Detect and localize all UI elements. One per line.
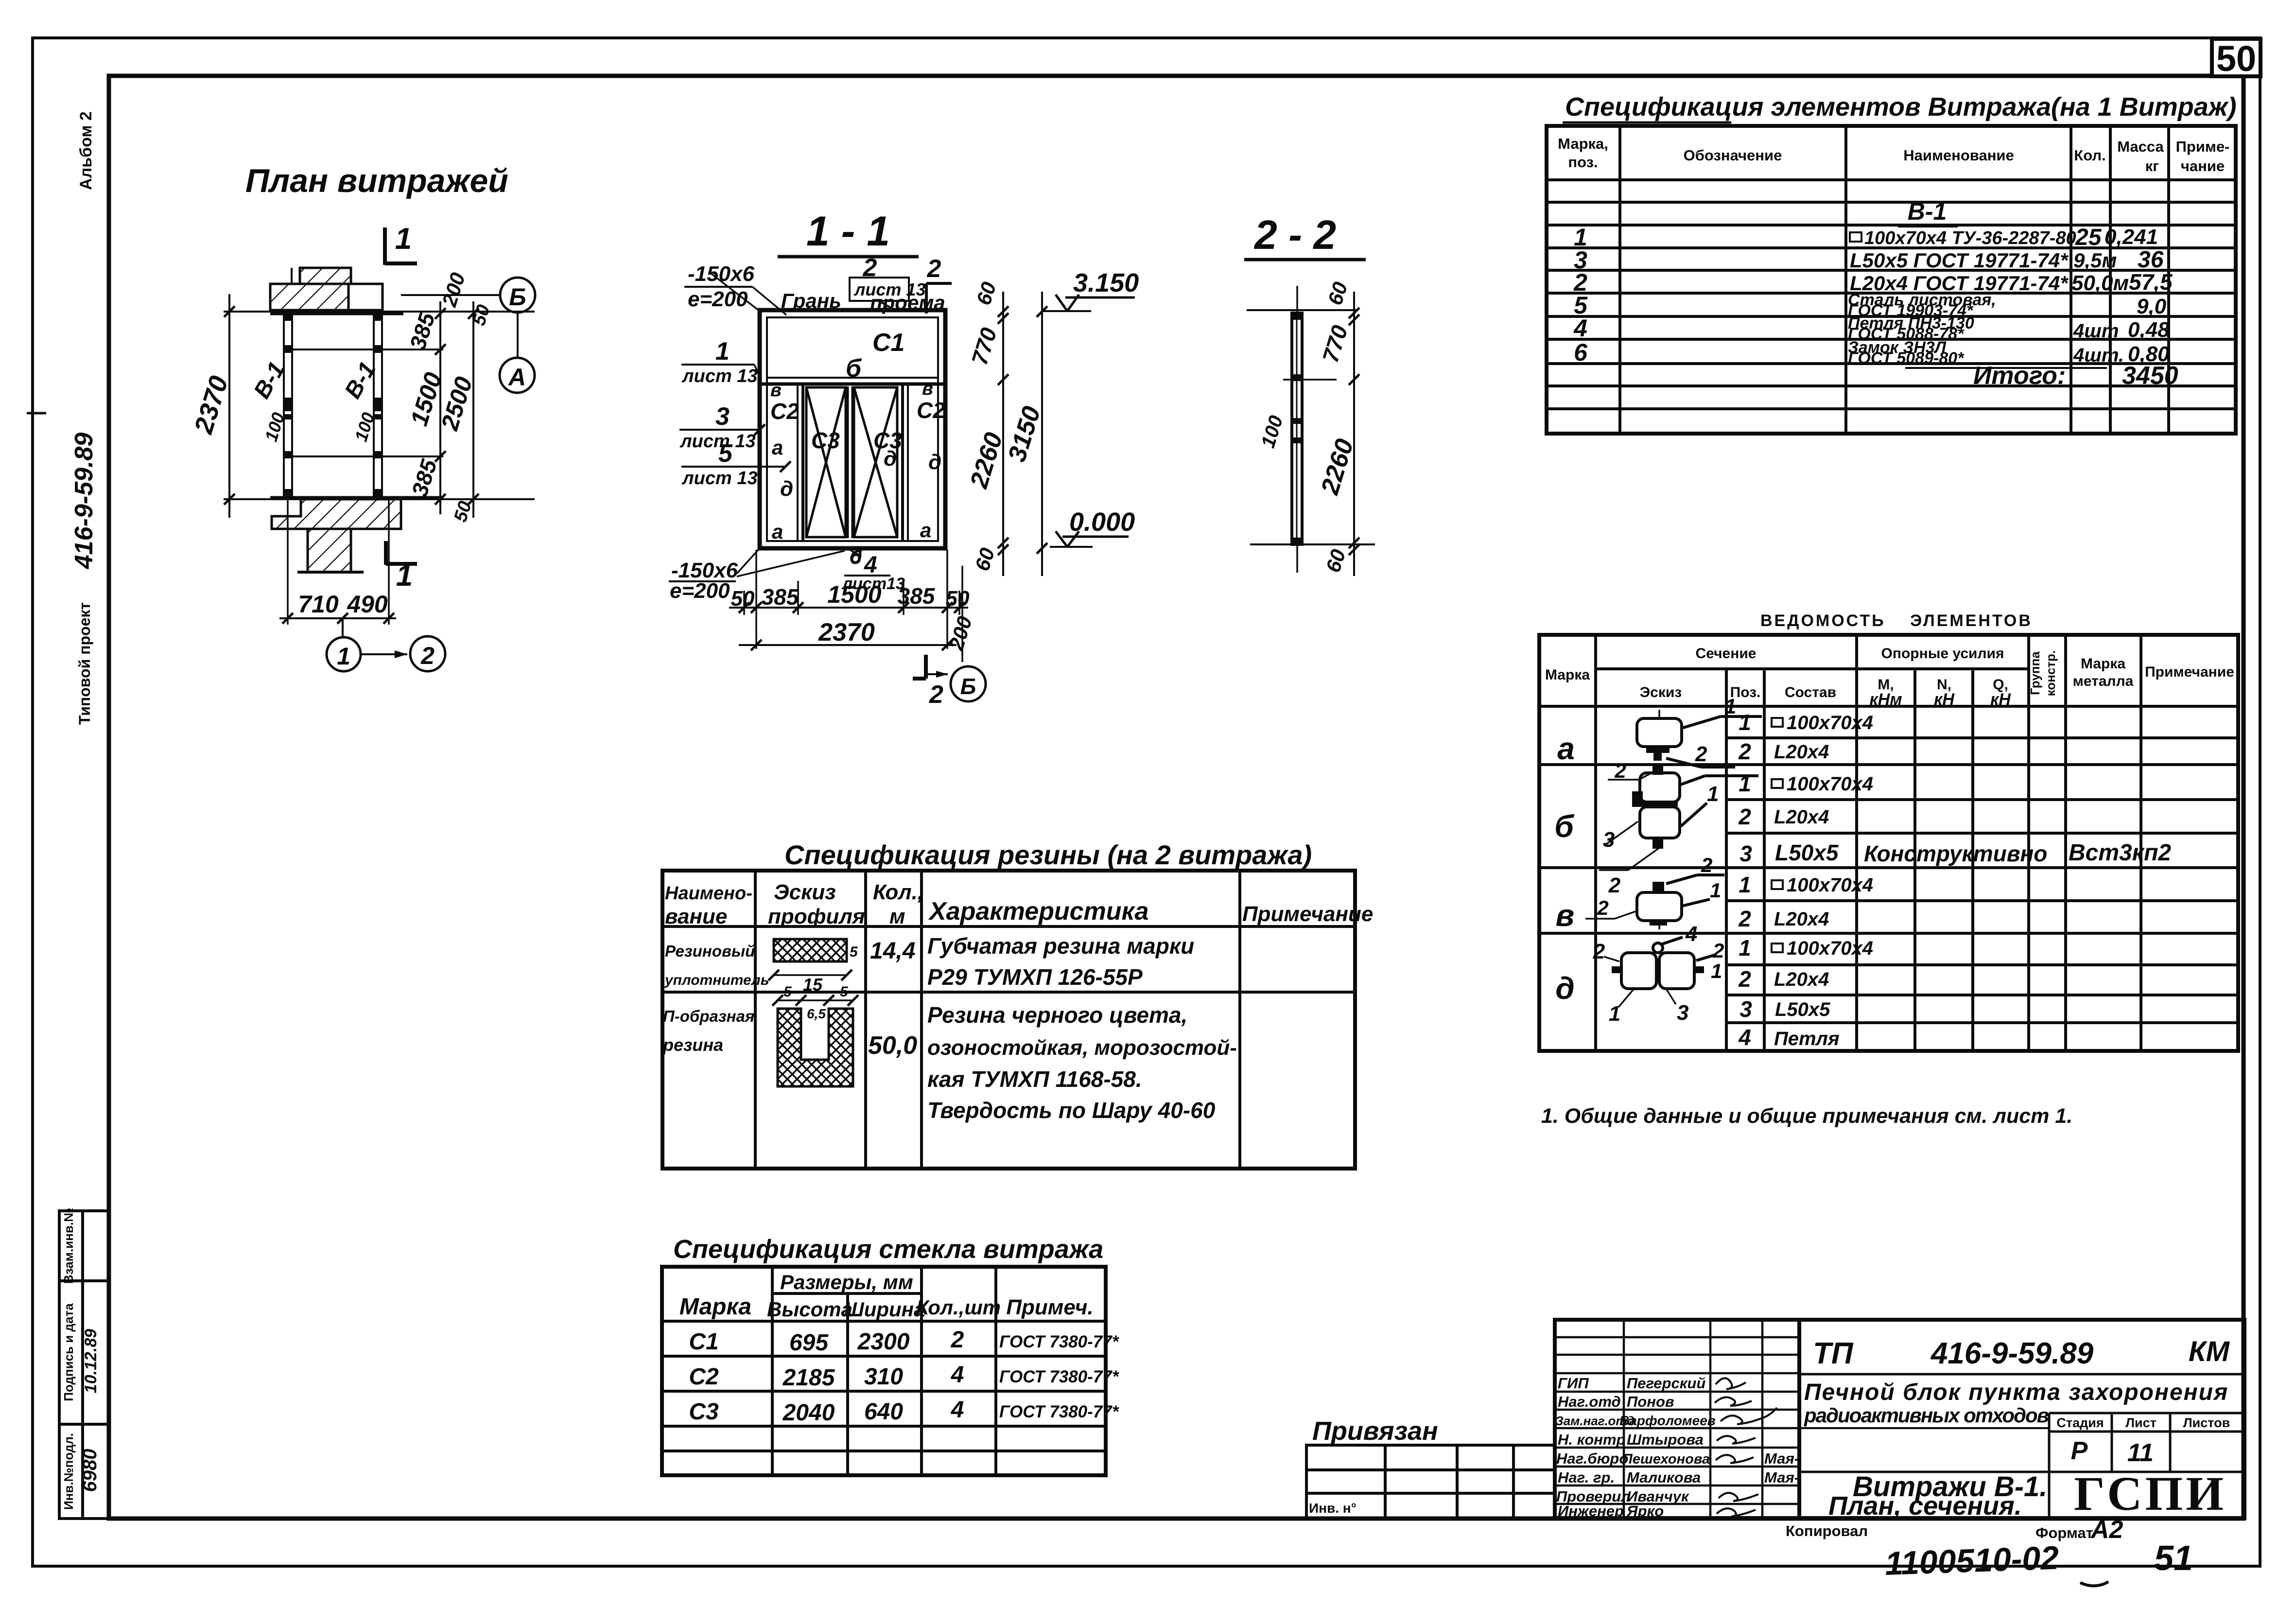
svg-text:вание: вание bbox=[665, 905, 727, 928]
svg-text:2185: 2185 bbox=[783, 1365, 835, 1391]
svg-text:С2: С2 bbox=[770, 399, 799, 424]
svg-text:L50x5: L50x5 bbox=[1775, 999, 1830, 1020]
стадия/лист table bbox=[1799, 1413, 2244, 1518]
svg-text:Стадия: Стадия bbox=[2056, 1415, 2104, 1430]
svg-text:чание: чание bbox=[2181, 157, 2225, 175]
window outer frame bbox=[760, 310, 945, 548]
svg-text:поз.: поз. bbox=[1568, 154, 1598, 171]
svg-text:Варфоломеев: Варфоломеев bbox=[1619, 1413, 1716, 1428]
svg-text:1: 1 bbox=[396, 559, 413, 593]
central mullion bbox=[847, 386, 849, 538]
svg-text:2300: 2300 bbox=[857, 1329, 910, 1355]
svg-text:50,0: 50,0 bbox=[868, 1031, 917, 1060]
svg-text:Резиновый: Резиновый bbox=[665, 942, 755, 960]
svg-text:10.12.89: 10.12.89 bbox=[82, 1329, 100, 1393]
svg-text:2370: 2370 bbox=[818, 618, 875, 646]
svg-text:радиоактивных отходов: радиоактивных отходов bbox=[1804, 1404, 2049, 1427]
signature table bbox=[1555, 1320, 1799, 1518]
svg-text:4: 4 bbox=[951, 1362, 964, 1388]
svg-text:озоностойкая, морозостой-: озоностойкая, морозостой- bbox=[927, 1036, 1237, 1060]
svg-text:Ширина: Ширина bbox=[844, 1298, 925, 1321]
sheet number 50 box bbox=[2212, 39, 2261, 76]
right mullion (В-1) bbox=[374, 314, 382, 497]
left mullion (В-1) bbox=[284, 314, 292, 497]
svg-text:2: 2 bbox=[1608, 873, 1621, 897]
svg-text:1: 1 bbox=[715, 337, 730, 366]
band under C1 bbox=[767, 377, 938, 379]
svg-text:Типовой проект: Типовой проект bbox=[76, 602, 93, 725]
svg-text:Опорные усилия: Опорные усилия bbox=[1881, 646, 2004, 662]
svg-text:640: 640 bbox=[864, 1399, 903, 1425]
svg-text:3: 3 bbox=[1739, 841, 1752, 866]
svg-text:Р: Р bbox=[2071, 1437, 2088, 1465]
svg-text:695: 695 bbox=[789, 1330, 829, 1356]
svg-text:С1: С1 bbox=[872, 329, 904, 357]
svg-text:5: 5 bbox=[840, 984, 849, 1000]
svg-text:1. Общие данные и общие примеч: 1. Общие данные и общие примечания см. л… bbox=[1541, 1104, 2072, 1128]
svg-text:1: 1 bbox=[395, 222, 412, 256]
svg-text:Пегерский: Пегерский bbox=[1627, 1375, 1705, 1392]
svg-text:кН: кН bbox=[1934, 690, 1955, 709]
svg-text:Пешехонова: Пешехонова bbox=[1622, 1451, 1710, 1467]
svg-text:100x70x4: 100x70x4 bbox=[1787, 712, 1873, 734]
svg-text:Б: Б bbox=[509, 283, 526, 311]
svg-text:2: 2 bbox=[863, 254, 877, 282]
svg-text:2: 2 bbox=[951, 1327, 964, 1353]
svg-text:лист 13: лист 13 bbox=[853, 279, 925, 299]
svg-text:L50x5: L50x5 bbox=[1775, 840, 1839, 865]
svg-text:Конструктивно: Конструктивно bbox=[1864, 841, 2047, 866]
svg-text:ГОСТ 5089-80*: ГОСТ 5089-80* bbox=[1848, 349, 1965, 367]
svg-text:в: в bbox=[922, 379, 933, 399]
column (double line) bbox=[1292, 313, 1302, 544]
svg-text:д: д bbox=[928, 450, 941, 474]
svg-text:1100510-02: 1100510-02 bbox=[1884, 1539, 2060, 1582]
right dim line 2 (3150) bbox=[1041, 292, 1043, 576]
svg-text:Привязан: Привязан bbox=[1312, 1416, 1438, 1446]
svg-text:Понов: Понов bbox=[1627, 1393, 1674, 1410]
svg-text:Губчатая резина марки: Губчатая резина марки bbox=[927, 933, 1194, 959]
svg-text:1: 1 bbox=[1710, 879, 1721, 902]
svg-text:100x70x4: 100x70x4 bbox=[1787, 874, 1873, 896]
svg-text:L20x4: L20x4 bbox=[1774, 741, 1829, 763]
svg-text:4: 4 bbox=[1738, 1025, 1751, 1050]
svg-text:резина: резина bbox=[662, 1035, 723, 1055]
svg-text:Листов: Листов bbox=[2183, 1415, 2230, 1430]
svg-text:ГИП: ГИП bbox=[1558, 1375, 1589, 1392]
svg-text:11: 11 bbox=[2127, 1439, 2154, 1467]
svg-text:Кол.,: Кол., bbox=[873, 880, 923, 904]
dim 710 490 bbox=[279, 617, 396, 619]
svg-text:1: 1 bbox=[337, 643, 350, 670]
section flag 1 (bottom) bbox=[386, 541, 417, 565]
bottom flag 2 with circle Б bbox=[924, 655, 928, 679]
svg-text:2: 2 bbox=[1738, 906, 1751, 931]
svg-text:б: б bbox=[846, 354, 862, 383]
svg-text:Кол.,шт: Кол.,шт bbox=[916, 1296, 1001, 1319]
svg-text:План, сечения.: План, сечения. bbox=[1828, 1491, 2022, 1520]
svg-text:Мая-: Мая- bbox=[1764, 1469, 1799, 1486]
svg-text:100x70x4: 100x70x4 bbox=[1787, 938, 1873, 959]
svg-text:а: а bbox=[772, 436, 783, 459]
svg-text:100x70x4 ТУ-36-2287-80: 100x70x4 ТУ-36-2287-80 bbox=[1864, 228, 2076, 248]
svg-text:2: 2 bbox=[1597, 896, 1608, 919]
svg-text:ГСПИ: ГСПИ bbox=[2074, 1467, 2226, 1520]
svg-text:Штырова: Штырова bbox=[1627, 1431, 1704, 1448]
svg-text:416-9-59.89: 416-9-59.89 bbox=[1930, 1337, 2094, 1370]
svg-text:Примечание: Примечание bbox=[1242, 902, 1373, 926]
svg-text:Р29 ТУМХП 126-55Р: Р29 ТУМХП 126-55Р bbox=[927, 964, 1143, 990]
svg-text:Вст3кп2: Вст3кп2 bbox=[2069, 840, 2171, 866]
svg-text:50: 50 bbox=[2216, 38, 2256, 79]
svg-text:2: 2 bbox=[1738, 804, 1751, 829]
svg-text:П-образная: П-образная bbox=[663, 1007, 754, 1025]
svg-text:лист 13: лист 13 bbox=[681, 366, 758, 386]
svg-text:Примеч.: Примеч. bbox=[1006, 1295, 1093, 1319]
fold mark bbox=[27, 412, 46, 415]
svg-text:1 - 1: 1 - 1 bbox=[806, 208, 890, 255]
svg-text:1: 1 bbox=[1609, 1002, 1620, 1026]
svg-text:1500: 1500 bbox=[827, 581, 881, 608]
svg-text:710: 710 bbox=[298, 591, 339, 618]
svg-text:Эскиз: Эскиз bbox=[774, 880, 836, 904]
sketch в bbox=[1585, 875, 1724, 929]
svg-text:50: 50 bbox=[731, 587, 755, 611]
svg-text:3: 3 bbox=[715, 402, 730, 431]
svg-text:15: 15 bbox=[803, 975, 823, 995]
svg-text:L20x4: L20x4 bbox=[1774, 908, 1829, 930]
svg-text:9,0: 9,0 bbox=[2137, 295, 2167, 318]
svg-text:Высота: Высота bbox=[767, 1298, 852, 1321]
axis circles 1 and 2 bbox=[342, 618, 344, 638]
dim 2500 bbox=[472, 301, 474, 518]
svg-text:2: 2 bbox=[1593, 940, 1605, 963]
svg-text:4: 4 bbox=[1685, 922, 1697, 946]
svg-text:Инженер: Инженер bbox=[1558, 1502, 1624, 1520]
svg-text:Лист: Лист bbox=[2125, 1415, 2157, 1430]
svg-text:3.150: 3.150 bbox=[1073, 268, 1139, 297]
svg-text:3450: 3450 bbox=[2122, 362, 2178, 390]
svg-text:2040: 2040 bbox=[783, 1400, 835, 1426]
svg-text:Наг. гр.: Наг. гр. bbox=[1558, 1469, 1615, 1486]
svg-text:кг: кг bbox=[2145, 157, 2159, 175]
bottom wall hatched bbox=[272, 499, 401, 529]
svg-text:Подпись и дата: Подпись и дата bbox=[61, 1303, 76, 1401]
svg-text:Ярко: Ярко bbox=[1626, 1502, 1664, 1520]
svg-text:4: 4 bbox=[1573, 314, 1587, 342]
svg-text:Приме-: Приме- bbox=[2176, 138, 2230, 155]
svg-text:а: а bbox=[920, 519, 931, 541]
right casement with X bbox=[854, 387, 897, 537]
svg-text:50,0м: 50,0м bbox=[2071, 271, 2129, 295]
svg-text:5: 5 bbox=[850, 944, 858, 960]
svg-text:1: 1 bbox=[1739, 710, 1751, 735]
svg-text:6,5: 6,5 bbox=[807, 1006, 826, 1021]
svg-text:2: 2 bbox=[1738, 966, 1751, 992]
opening lines bbox=[292, 349, 443, 350]
svg-text:1: 1 bbox=[1724, 695, 1736, 718]
sketch б bbox=[1599, 772, 1758, 870]
svg-text:профиля: профиля bbox=[768, 905, 865, 928]
svg-text:Грань: Грань bbox=[781, 289, 841, 312]
поз/состав content bbox=[1738, 710, 1752, 1050]
svg-text:лист 13: лист 13 bbox=[679, 431, 756, 452]
svg-text:490: 490 bbox=[347, 591, 388, 618]
svg-text:2: 2 bbox=[1695, 742, 1707, 766]
svg-text:ТП: ТП bbox=[1813, 1337, 1854, 1370]
svg-text:кН: кН bbox=[1990, 690, 2011, 709]
sketch a bbox=[1637, 710, 1762, 767]
svg-text:д: д bbox=[780, 477, 793, 501]
svg-text:Копировал: Копировал bbox=[1786, 1522, 1868, 1539]
svg-text:констр.: констр. bbox=[2043, 650, 2058, 697]
svg-text:Марка: Марка bbox=[679, 1294, 751, 1320]
svg-text:4шт: 4шт bbox=[2073, 320, 2119, 342]
svg-text:385: 385 bbox=[898, 583, 936, 609]
svg-text:4: 4 bbox=[951, 1397, 964, 1423]
svg-text:416-9-59.89: 416-9-59.89 bbox=[70, 433, 98, 570]
svg-text:кая ТУМХП 1168-58.: кая ТУМХП 1168-58. bbox=[927, 1066, 1142, 1092]
bottom dims bbox=[744, 550, 959, 649]
svg-text:ГОСТ 7380-77*: ГОСТ 7380-77* bbox=[999, 1332, 1119, 1351]
right dim line 1 bbox=[1002, 292, 1004, 576]
svg-text:А: А bbox=[507, 364, 526, 391]
svg-text:Размеры, мм: Размеры, мм bbox=[780, 1271, 913, 1293]
svg-text:5: 5 bbox=[783, 984, 792, 1000]
svg-text:лист 13: лист 13 bbox=[681, 468, 758, 489]
svg-text:а: а bbox=[1557, 731, 1575, 766]
svg-text:2 - 2: 2 - 2 bbox=[1253, 212, 1336, 258]
svg-text:Б: Б bbox=[960, 674, 976, 699]
svg-text:Наименование: Наименование bbox=[1903, 147, 2014, 164]
svg-text:25: 25 bbox=[2075, 225, 2102, 250]
svg-text:Эскиз: Эскиз bbox=[1640, 684, 1682, 700]
svg-text:L20x4: L20x4 bbox=[1774, 806, 1829, 828]
svg-text:ЭЛЕМЕНТОВ: ЭЛЕМЕНТОВ bbox=[1910, 611, 2033, 630]
mullion centre lines down bbox=[287, 497, 289, 625]
sketch д bbox=[1604, 937, 1716, 1007]
svg-text:Маликова: Маликова bbox=[1627, 1469, 1701, 1486]
svg-text:е=200: е=200 bbox=[670, 579, 730, 603]
svg-text:Н. контр: Н. контр bbox=[1558, 1431, 1626, 1448]
left bottom small table bbox=[59, 1211, 109, 1519]
section flag 1 (top) bbox=[385, 227, 417, 265]
svg-text:Инв. н°: Инв. н° bbox=[1309, 1501, 1357, 1516]
svg-text:51: 51 bbox=[2154, 1539, 2193, 1578]
svg-text:1: 1 bbox=[1739, 771, 1751, 796]
svg-text:Альбом 2: Альбом 2 bbox=[77, 111, 95, 190]
top wall hatched bbox=[300, 268, 351, 284]
svg-text:310: 310 bbox=[864, 1364, 903, 1390]
svg-text:Наг.бюро: Наг.бюро bbox=[1556, 1450, 1628, 1467]
svg-text:Спецификация элементов Витра: Спецификация элементов Витража(на 1 Витр… bbox=[1565, 92, 2236, 122]
svg-text:3: 3 bbox=[1677, 1001, 1688, 1025]
svg-text:57,5: 57,5 bbox=[2129, 269, 2173, 295]
svg-text:2: 2 bbox=[420, 642, 435, 669]
svg-text:С2: С2 bbox=[917, 398, 945, 423]
svg-text:2: 2 bbox=[929, 681, 943, 709]
svg-text:1: 1 bbox=[1739, 872, 1751, 897]
svg-text:6: 6 bbox=[1574, 339, 1588, 366]
svg-text:м: м bbox=[889, 905, 905, 928]
svg-text:Наимено-: Наимено- bbox=[665, 883, 752, 904]
svg-text:0,241: 0,241 bbox=[2105, 225, 2158, 249]
window head line bbox=[224, 311, 535, 313]
svg-text:Марка: Марка bbox=[2081, 656, 2125, 672]
svg-text:Марка,: Марка, bbox=[1558, 135, 1608, 152]
svg-text:Твердость по Шару 40-60: Твердость по Шару 40-60 bbox=[927, 1098, 1216, 1123]
svg-text:Обозначение: Обозначение bbox=[1684, 147, 1782, 164]
svg-text:Наг.отд: Наг.отд bbox=[1558, 1393, 1621, 1410]
svg-text:уплотнитель: уплотнитель bbox=[664, 972, 769, 988]
svg-text:д: д bbox=[884, 447, 897, 471]
svg-text:План витражей: План витражей bbox=[245, 162, 508, 199]
svg-text:ГОСТ 7380-77*: ГОСТ 7380-77* bbox=[999, 1367, 1119, 1386]
svg-text:в: в bbox=[770, 380, 782, 401]
svg-text:Группа: Группа bbox=[2028, 651, 2042, 695]
svg-text:Печной блок пункта захоронения: Печной блок пункта захоронения bbox=[1804, 1380, 2228, 1405]
svg-text:С3: С3 bbox=[811, 428, 840, 453]
svg-text:0,48: 0,48 bbox=[2128, 318, 2170, 342]
svg-text:Мая-: Мая- bbox=[1764, 1450, 1799, 1467]
axis circles Б and А bbox=[500, 278, 535, 313]
svg-text:д: д bbox=[1555, 971, 1575, 1006]
svg-text:ВЕДОМОСТЬ: ВЕДОМОСТЬ bbox=[1760, 611, 1886, 630]
svg-text:2: 2 bbox=[1738, 739, 1751, 764]
dim 2370 (left) bbox=[228, 294, 230, 518]
svg-text:Спецификация стекла витража: Спецификация стекла витража bbox=[673, 1235, 1103, 1264]
svg-text:Взам.инв.№: Взам.инв.№ bbox=[61, 1208, 76, 1284]
central zone verticals bbox=[797, 384, 799, 541]
svg-text:Сечение: Сечение bbox=[1696, 646, 1757, 662]
svg-text:3: 3 bbox=[1739, 996, 1752, 1022]
svg-text:металла: металла bbox=[2073, 673, 2134, 689]
axis line to Б bbox=[401, 294, 500, 296]
svg-text:а: а bbox=[772, 520, 783, 543]
svg-text:9,5м: 9,5м bbox=[2073, 249, 2117, 272]
svg-text:100x70x4: 100x70x4 bbox=[1787, 773, 1873, 795]
svg-text:2: 2 bbox=[1712, 939, 1724, 962]
svg-text:Кол.: Кол. bbox=[2074, 147, 2105, 164]
svg-text:А2: А2 bbox=[2090, 1516, 2123, 1544]
svg-text:в: в bbox=[1556, 898, 1575, 933]
svg-text:Характеристика: Характеристика bbox=[928, 897, 1148, 926]
svg-text:6980: 6980 bbox=[79, 1449, 101, 1492]
svg-text:1: 1 bbox=[1711, 960, 1722, 982]
svg-text:Формат: Формат bbox=[2035, 1524, 2093, 1541]
svg-text:кНм: кНм bbox=[1870, 690, 1902, 709]
main title area bbox=[1799, 1320, 2244, 1518]
window sill line bbox=[224, 498, 535, 500]
svg-text:2: 2 bbox=[927, 255, 941, 283]
top cap line bbox=[1247, 309, 1356, 311]
svg-text:Инв.№подл.: Инв.№подл. bbox=[61, 1433, 76, 1510]
dim 385/1500/385 bbox=[439, 301, 441, 514]
svg-text:Состав: Состав bbox=[1785, 684, 1836, 700]
svg-text:1: 1 bbox=[1739, 935, 1751, 961]
svg-text:Марка: Марка bbox=[1545, 667, 1590, 683]
svg-text:Спецификация резины (на 2 вит: Спецификация резины (на 2 витража) bbox=[784, 839, 1312, 870]
svg-text:е=200: е=200 bbox=[688, 287, 748, 311]
svg-text:385: 385 bbox=[762, 584, 800, 610]
svg-text:ГОСТ 7380-77*: ГОСТ 7380-77* bbox=[999, 1402, 1119, 1421]
svg-text:L50x5 ГОСТ 19771-74*: L50x5 ГОСТ 19771-74* bbox=[1850, 249, 2069, 272]
svg-text:L20x4: L20x4 bbox=[1774, 969, 1829, 990]
svg-text:Примечание: Примечание bbox=[2145, 664, 2234, 680]
svg-text:В-1: В-1 bbox=[1908, 198, 1947, 225]
signature squiggles bbox=[1715, 1378, 1777, 1517]
svg-text:3: 3 bbox=[1603, 828, 1615, 852]
svg-text:50: 50 bbox=[946, 587, 970, 611]
dim line bbox=[1353, 292, 1355, 576]
svg-text:Масса: Масса bbox=[2117, 138, 2164, 155]
svg-text:2: 2 bbox=[1701, 854, 1712, 876]
svg-text:1: 1 bbox=[1707, 782, 1719, 806]
svg-text:С1: С1 bbox=[689, 1329, 718, 1355]
svg-text:4шт.: 4шт. bbox=[2073, 345, 2124, 366]
svg-text:Итого:: Итого: bbox=[1973, 362, 2066, 390]
svg-text:С2: С2 bbox=[689, 1364, 719, 1390]
svg-text:5: 5 bbox=[718, 439, 733, 468]
svg-text:Петля: Петля bbox=[1774, 1028, 1840, 1049]
svg-text:КМ: КМ bbox=[2189, 1336, 2230, 1367]
svg-text:б: б bbox=[1554, 809, 1575, 844]
svg-text:Резина черного цвета,: Резина черного цвета, bbox=[927, 1002, 1187, 1028]
svg-text:14,4: 14,4 bbox=[870, 938, 915, 964]
svg-text:С3: С3 bbox=[689, 1399, 719, 1425]
svg-text:2: 2 bbox=[1614, 759, 1626, 782]
left casement with X bbox=[806, 387, 846, 537]
bottom line bbox=[1250, 543, 1375, 545]
